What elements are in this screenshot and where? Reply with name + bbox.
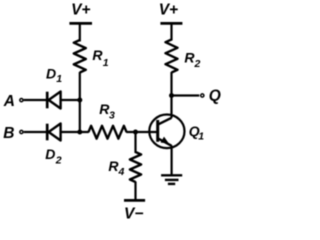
svg-text:D: D [46, 66, 56, 82]
svg-text:3: 3 [109, 109, 115, 121]
svg-text:R: R [92, 47, 103, 63]
svg-text:D: D [45, 146, 55, 162]
svg-text:1: 1 [103, 57, 109, 69]
svg-text:2: 2 [55, 155, 62, 167]
svg-text:V+: V+ [71, 1, 90, 18]
svg-text:1: 1 [198, 130, 204, 142]
svg-text:Q: Q [209, 87, 221, 104]
svg-text:4: 4 [118, 166, 125, 178]
svg-text:V−: V− [124, 206, 143, 223]
svg-text:V+: V+ [159, 1, 178, 18]
svg-text:A: A [3, 93, 15, 110]
svg-text:1: 1 [56, 73, 62, 85]
svg-text:B: B [3, 125, 14, 142]
svg-text:2: 2 [194, 58, 201, 70]
